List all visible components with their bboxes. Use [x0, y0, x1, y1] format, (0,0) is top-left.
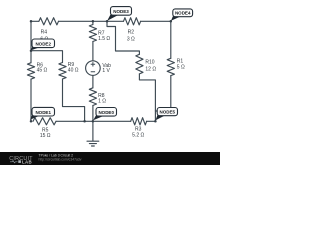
svg-text:NODE3: NODE3	[113, 9, 129, 14]
svg-text:40 Ω: 40 Ω	[68, 68, 79, 74]
resistor R9	[59, 63, 66, 80]
label R10 value	[145, 59, 156, 72]
svg-text:NODE0: NODE0	[98, 110, 114, 115]
node NODE4 flag	[171, 9, 193, 21]
label R9 value	[68, 62, 79, 74]
svg-text:NODE1: NODE1	[35, 110, 51, 115]
svg-text:R4: R4	[41, 30, 48, 36]
wire bottom middle segment	[93, 120, 131, 122]
svg-text:12 Ω: 12 Ω	[145, 66, 156, 72]
wire bottom right segment	[147, 120, 156, 122]
svg-text:1.5 Ω: 1.5 Ω	[98, 36, 110, 42]
svg-text:3 Ω: 3 Ω	[127, 36, 135, 42]
wire bottom left segment	[56, 120, 93, 122]
resistor R10	[136, 54, 143, 74]
node NODE5 flag	[156, 108, 178, 121]
label R2 value	[127, 30, 135, 43]
node NODE2 flag	[31, 39, 55, 50]
label R5 value	[40, 128, 51, 139]
CircuitLab logo	[9, 156, 33, 164]
wire node2 to R9 top	[31, 51, 63, 63]
svg-text:NODE2: NODE2	[35, 41, 51, 46]
wire R9 bottom jog	[63, 79, 85, 121]
ground	[87, 121, 99, 146]
svg-text:http://circuitlab.com/c347a3v: http://circuitlab.com/c347a3v	[39, 158, 82, 162]
wire top-left segment	[31, 20, 39, 22]
resistor R4	[39, 18, 59, 25]
node junction NODE2 anchor	[30, 49, 33, 52]
svg-text:1 V: 1 V	[102, 68, 110, 74]
svg-text:15 Ω: 15 Ω	[40, 133, 51, 139]
resistor R7	[89, 25, 96, 42]
resistor R1	[167, 58, 174, 75]
wire node3 to R10 jog	[107, 21, 139, 54]
wire Vab to R8	[92, 75, 94, 87]
svg-text:45 Ω: 45 Ω	[37, 68, 48, 74]
footer attribution bar	[0, 152, 220, 165]
svg-text:R2: R2	[128, 30, 135, 36]
svg-text:LAB: LAB	[22, 159, 32, 164]
footer text	[39, 154, 82, 162]
svg-text:R10: R10	[145, 59, 154, 65]
node NODE1 flag	[30, 107, 55, 119]
wire left column lower	[30, 79, 32, 121]
wire top middle segment	[59, 20, 124, 22]
node junction R9 bottom	[83, 120, 86, 123]
wire R10 bottom jog	[139, 74, 155, 121]
label R6 value	[37, 62, 48, 73]
resistor R8	[89, 88, 96, 106]
resistor R2	[124, 18, 141, 25]
node junction NODE0 / ground	[92, 120, 95, 123]
label Vab value	[102, 63, 111, 74]
voltage source Vab	[86, 61, 101, 76]
node junction top-left	[30, 20, 33, 23]
wire R1 column upper	[170, 21, 172, 58]
node junction R7 top	[92, 20, 95, 23]
label R3 value	[132, 127, 144, 139]
label R8 value	[98, 93, 106, 104]
node NODE3 flag	[107, 7, 131, 21]
node junction NODE5 anchor	[154, 120, 157, 123]
svg-text:5.2 Ω: 5.2 Ω	[132, 133, 144, 139]
label R7 value	[98, 30, 110, 42]
resistor R5	[33, 118, 56, 125]
node junction NODE4 anchor	[170, 20, 173, 23]
resistor R6	[27, 63, 34, 79]
wire R7 top lead	[92, 21, 94, 24]
svg-text:1 Ω: 1 Ω	[98, 99, 106, 105]
node junction NODE1 anchor	[30, 120, 33, 123]
resistor R3	[131, 118, 147, 125]
wire R1 bottom jog	[155, 76, 170, 111]
label R1 value	[177, 59, 185, 71]
wire R7 to Vab	[92, 42, 94, 61]
svg-text:NODE5: NODE5	[160, 110, 176, 115]
wire left column upper	[30, 21, 32, 62]
svg-text:5 Ω: 5 Ω	[177, 64, 185, 70]
node NODE0 flag	[93, 108, 116, 121]
wire top right segment	[141, 20, 171, 22]
wire R8 to node0	[92, 106, 94, 122]
label R4 value	[40, 30, 48, 43]
node junction NODE3 anchor	[106, 20, 109, 23]
svg-text:NODE4: NODE4	[175, 11, 191, 16]
